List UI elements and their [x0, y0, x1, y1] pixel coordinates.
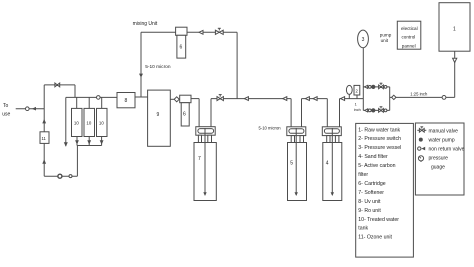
sand filter 4 dip tube: [331, 128, 333, 195]
svg-text:5- Active carbon: 5- Active carbon: [358, 163, 395, 169]
valve bowtie V4 on line A: [55, 83, 60, 87]
wire line A drop: [74, 85, 76, 98]
wire tank stub 3 bottom: [101, 137, 103, 146]
wire vessel3 stem: [362, 48, 364, 111]
svg-text:5-10 micron: 5-10 micron: [259, 125, 282, 130]
softener 7 legs: [198, 135, 201, 142]
svg-text:mixing Unit: mixing Unit: [133, 21, 158, 27]
svg-text:pump: pump: [380, 33, 392, 38]
ro unit box 9: [148, 90, 171, 146]
wire main line seg d: [340, 98, 364, 100]
svg-text:9- Ro unit: 9- Ro unit: [358, 208, 381, 214]
softener 7 cap: [196, 127, 215, 136]
valve V6 with stem mixing: [215, 28, 223, 34]
wire manifold right vertical: [389, 87, 391, 111]
legend symbol box: [415, 123, 464, 195]
arrow down dosing: [139, 74, 143, 78]
svg-text:filter: filter: [358, 172, 368, 178]
legend list box: [356, 123, 414, 257]
svg-text:manual valve: manual valve: [429, 128, 459, 134]
wire tank riser: [454, 51, 456, 97]
svg-text:non return valve: non return valve: [429, 147, 465, 153]
wire cap to softener: [191, 98, 199, 100]
sand filter 4 pipes: [326, 99, 328, 127]
svg-text:7: 7: [198, 156, 201, 162]
carbon filter 5 cap: [287, 127, 306, 136]
wire main line seg c: [302, 98, 328, 100]
wire softener left pipe: [198, 99, 200, 127]
cartridge C-low cap: [180, 95, 191, 103]
treated water tank 10 b: [84, 108, 95, 136]
legend manual valve symbol: [417, 127, 426, 132]
wire drain vertical: [65, 97, 67, 146]
wire line A bypass: [44, 84, 75, 86]
uv unit box 8: [117, 93, 135, 108]
svg-text:1: 1: [453, 27, 456, 33]
svg-text:6: 6: [183, 112, 186, 118]
svg-text:3- Pressure vessel: 3- Pressure vessel: [358, 145, 401, 151]
diamond junction D1: [174, 97, 179, 102]
legend pressure gauge symbol: [418, 156, 423, 162]
valve circle V2: [69, 175, 72, 178]
wire line B tanks feed: [66, 96, 117, 98]
cartridge C-top body 6: [177, 35, 186, 58]
wire main right to tank: [390, 96, 455, 98]
wire left vertical: [43, 85, 45, 176]
wire pump branch top: [363, 86, 389, 88]
arrow up into 11: [42, 159, 46, 164]
svg-text:6- Cartridge: 6- Cartridge: [358, 181, 386, 187]
arrow down tank2: [87, 140, 91, 144]
branch bottom symbols: [365, 107, 387, 113]
pressure gauge G1: [346, 85, 352, 94]
arrow to use: [32, 107, 36, 111]
legend water pump symbol: [419, 138, 423, 142]
arrow left A1: [244, 97, 248, 101]
raw water tank 1: [439, 3, 470, 52]
pressure vessel circle 3: [358, 30, 369, 48]
svg-text:10- Treated water: 10- Treated water: [358, 217, 399, 223]
svg-text:1: 1: [355, 102, 357, 106]
valve circle V7: [442, 96, 446, 100]
carbon filter 5 pipes: [290, 99, 292, 127]
svg-text:1:25 inch: 1:25 inch: [410, 91, 428, 96]
arrow drain down: [64, 142, 68, 146]
svg-text:unit: unit: [381, 38, 389, 43]
treated water tank 10 a: [72, 108, 83, 136]
svg-text:pannel: pannel: [402, 43, 416, 48]
svg-text:10: 10: [99, 120, 104, 125]
legend symbol text: [429, 128, 465, 170]
svg-text:electical: electical: [401, 26, 418, 31]
pressure switch box 2: [354, 85, 360, 95]
svg-text:11- Ozone unit: 11- Ozone unit: [358, 235, 392, 241]
wire bottom left: [44, 175, 77, 177]
svg-text:5: 5: [290, 161, 293, 167]
wire softener right pipe: [210, 99, 212, 127]
valve circle V3 on line B: [97, 96, 101, 100]
svg-text:tank: tank: [358, 226, 368, 232]
svg-text:7- Softener: 7- Softener: [358, 190, 384, 196]
carbon filter 5 body: [288, 143, 307, 201]
svg-text:To: To: [3, 103, 9, 109]
carbon filter 5 dip tube: [295, 128, 297, 195]
wire tank stub 2 top: [88, 97, 90, 108]
wire mixing left drop: [140, 32, 142, 97]
wire tank stub 1 bottom: [76, 137, 78, 146]
svg-text:pressure: pressure: [429, 156, 449, 162]
legend list text: [358, 127, 401, 240]
softener 7 dip tube: [204, 128, 206, 195]
svg-text:guage: guage: [431, 165, 445, 171]
svg-text:1- Raw water tank: 1- Raw water tank: [358, 127, 400, 133]
svg-text:5-10 micron: 5-10 micron: [145, 64, 171, 70]
electrical control panel box: [397, 21, 421, 49]
svg-text:control: control: [402, 35, 416, 40]
wire mixing loop riser: [236, 32, 238, 98]
svg-text:8: 8: [125, 98, 128, 104]
treated water tank 10 c: [97, 108, 108, 136]
arrow up to use: [42, 119, 46, 124]
wire tank collector: [77, 145, 102, 147]
softener 7 body: [194, 143, 216, 201]
svg-text:11: 11: [42, 136, 47, 141]
carbon filter 5 legs: [291, 136, 294, 143]
arrow down tank1: [75, 140, 79, 144]
svg-text:inch: inch: [354, 108, 361, 112]
svg-text:10: 10: [86, 120, 91, 125]
wire tank stub 1 top: [76, 97, 78, 108]
diamond junction D2: [392, 95, 396, 99]
wire to-use line: [16, 108, 45, 110]
wire pump branch bottom: [363, 109, 389, 111]
svg-text:water pump: water pump: [429, 137, 455, 143]
arrow left A4: [305, 97, 309, 101]
sand filter 4 body: [323, 143, 342, 201]
arrow left A3 mixing: [199, 30, 203, 34]
wire tank stub 2 bottom: [88, 137, 90, 146]
sand filter 4 cap: [322, 127, 341, 136]
svg-text:9: 9: [157, 112, 160, 118]
wire 9 to cartridge: [170, 98, 180, 100]
cartridge C-low body 6: [181, 103, 189, 126]
svg-text:4: 4: [326, 161, 329, 167]
wire main line seg b: [211, 98, 291, 100]
wire riser to collector: [76, 146, 78, 177]
pressure gauge stem: [348, 94, 350, 98]
legend non return valve symbol: [418, 147, 426, 151]
svg-text:use: use: [2, 111, 10, 117]
arrow left A2: [283, 97, 287, 101]
wire tank stub 3 top: [101, 97, 103, 108]
svg-text:2- Pressure switch: 2- Pressure switch: [358, 136, 401, 142]
arrow down from tank: [453, 58, 457, 62]
cartridge C-top cap: [176, 27, 187, 35]
arrow down tank3: [100, 140, 104, 144]
wire mixing top line right: [187, 31, 237, 33]
sand filter 4 legs: [327, 136, 330, 143]
svg-text:6: 6: [180, 45, 183, 51]
svg-text:3: 3: [362, 37, 365, 43]
pump circle P1: [58, 174, 62, 178]
wire 8 to 9: [135, 96, 148, 98]
arrow left A6: [341, 97, 345, 101]
ozone unit O3 box 11: [40, 132, 49, 144]
svg-text:8- Uv unit: 8- Uv unit: [358, 199, 381, 205]
svg-text:10: 10: [74, 120, 79, 125]
wire mixing top line left: [141, 31, 176, 33]
branch top symbols: [365, 83, 387, 89]
arrow left A5: [313, 97, 317, 101]
valve V5 with stem: [217, 95, 223, 101]
pressure switch 2 stem: [356, 95, 358, 99]
svg-text:4- Sand filter: 4- Sand filter: [358, 154, 388, 160]
valve V1 on to-use line: [26, 107, 30, 111]
